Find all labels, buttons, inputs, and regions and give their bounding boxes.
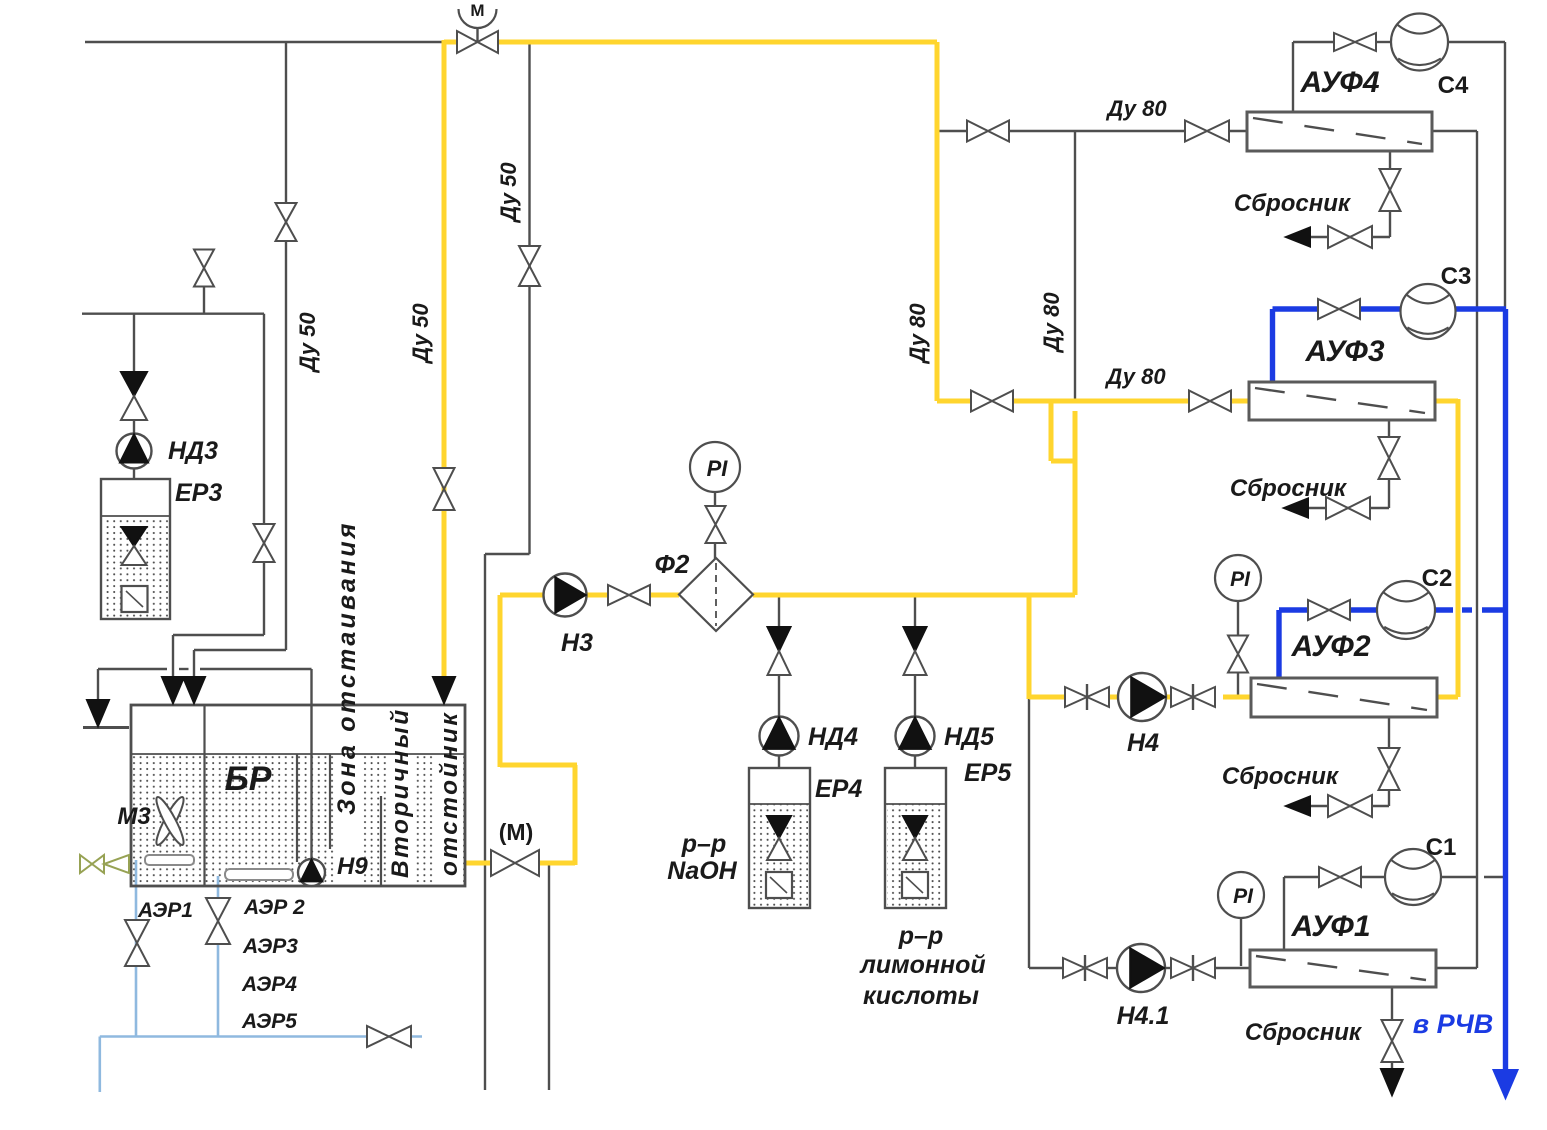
svg-text:Н9: Н9 [337, 853, 368, 880]
pipe blue AUF2 outlet [1276, 610, 1281, 677]
svg-text:Н4: Н4 [1127, 729, 1159, 757]
valve AUF3 feed b [1189, 391, 1231, 412]
pipe air left drop [99, 1037, 102, 1093]
svg-text:Сбросник: Сбросник [1234, 190, 1352, 217]
svg-text:НД4: НД4 [808, 723, 858, 751]
svg-text:С4: С4 [1438, 72, 1469, 99]
wire long drain right [548, 864, 550, 1090]
white strip behind rotated label Vtorichny [388, 755, 415, 885]
wire PI-F2 stem [714, 492, 716, 506]
wire AUF3 drain [1388, 420, 1390, 438]
wire C4 drop to RChV header [1504, 42, 1506, 309]
gauge PI at F2 [690, 442, 740, 492]
reservoir EP4 [749, 768, 810, 908]
svg-text:Ду 80: Ду 80 [1105, 96, 1167, 121]
svg-text:Ду 50: Ду 50 [295, 312, 320, 374]
wire AUF1 right to collector [1436, 967, 1477, 969]
inlet arrow 2 [183, 677, 205, 703]
check valve EP4 inner [767, 816, 791, 860]
pump H4 [1118, 673, 1166, 721]
wire vent stub with valve [203, 287, 205, 314]
svg-text:НД5: НД5 [944, 723, 995, 751]
reservoir EP3 [101, 479, 170, 619]
pump ND5 [896, 717, 935, 756]
svg-text:М3: М3 [117, 803, 151, 830]
flow meter C1 [1385, 849, 1441, 905]
drain arrow AUF2 [1286, 797, 1310, 816]
svg-text:Ф2: Ф2 [655, 549, 690, 579]
green drain valve [80, 855, 129, 873]
valve H3 discharge [608, 585, 650, 605]
svg-text:Ду 80: Ду 80 [905, 303, 930, 365]
pipe yellow AUF3 outlet [1435, 399, 1458, 404]
valve PI-F2 [706, 506, 726, 543]
pipe blue C3 to header [1456, 306, 1506, 311]
svg-text:С1: С1 [1426, 834, 1457, 861]
valve C4 [1334, 33, 1376, 51]
arrow to RChV [1494, 1070, 1518, 1098]
wire AUF4 inlet Du80 [937, 130, 966, 132]
level switch EP4 [766, 872, 792, 898]
sparger 2 [225, 869, 293, 880]
valve PI2 [1228, 636, 1248, 673]
white strip behind rotated label Zona [334, 706, 361, 885]
svg-text:С3: С3 [1441, 263, 1472, 290]
svg-text:Зона отстаивания: Зона отстаивания [333, 520, 361, 815]
svg-text:АЭР3: АЭР3 [242, 935, 298, 958]
svg-text:Вторичный: Вторичный [387, 707, 414, 878]
valve H4 discharge [1171, 684, 1215, 710]
svg-text:в РЧВ: в РЧВ [1413, 1009, 1493, 1039]
wire ND3 suction drop [133, 314, 135, 372]
tank secondary settler wall [380, 796, 382, 886]
svg-text:АЭР1: АЭР1 [137, 899, 193, 922]
check valve ND5 [904, 627, 927, 675]
valve H41 discharge [1171, 955, 1215, 981]
wire AUF4 drain [1389, 151, 1391, 170]
reservoir EP5 [885, 768, 946, 908]
valve AUF1 drain v [1382, 1020, 1403, 1062]
UV unit AUF1 [1250, 950, 1436, 987]
inlet arrow yellow line [433, 677, 455, 703]
wire Du80 vertical gray [1074, 131, 1076, 403]
pipe air AER2 riser [217, 876, 220, 1037]
wire EP5 inner stem [914, 804, 916, 817]
pipe air AER1 riser [135, 860, 138, 1037]
wire H9 suction pipe [310, 669, 312, 858]
inlet arrow 1 [162, 677, 184, 703]
svg-text:PI: PI [1233, 885, 1254, 908]
valve AUF4 feed a [967, 121, 1009, 142]
pipe yellow Du80 drop [935, 42, 940, 401]
drain arrow AUF3 [1284, 499, 1308, 518]
wire left dosing feed header [82, 313, 264, 315]
svg-text:АУФ1: АУФ1 [1290, 910, 1370, 943]
svg-text:PI: PI [1230, 568, 1251, 591]
wire C4 to right header [1448, 41, 1505, 43]
svg-text:НД3: НД3 [168, 437, 218, 465]
svg-text:АУФ2: АУФ2 [1290, 630, 1370, 663]
UV unit AUF3 [1249, 382, 1435, 420]
wire N41 suction line [1029, 967, 1063, 969]
tank wall left of pump [296, 754, 298, 862]
wire PI2 stem [1237, 601, 1239, 641]
valve on x264 [254, 524, 275, 562]
svg-text:АУФ3: АУФ3 [1304, 335, 1384, 368]
pipe yellow top header [444, 40, 457, 45]
flow meter C2 [1377, 581, 1435, 639]
pipe yellow riser jog [1049, 399, 1054, 461]
tank wall right of pump [329, 754, 331, 849]
valve electric top [457, 9, 498, 53]
overflow weir line [83, 726, 129, 729]
tank separator wall [203, 705, 205, 886]
valve AUF2 drain h [1328, 795, 1372, 817]
flow meter C4 [1391, 14, 1448, 71]
valve AUF3 drain h [1326, 497, 1370, 519]
valve on x530 [519, 246, 540, 286]
valve H4 suction [1065, 684, 1109, 710]
gauge PI at AUF1 [1218, 872, 1264, 918]
tank BR outline [131, 705, 465, 886]
pipe yellow zigzag from tank [466, 861, 491, 866]
wire ND5 branch [914, 595, 916, 627]
svg-text:лимонной: лимонной [859, 951, 985, 979]
tank BR dotted water fill [131, 754, 465, 886]
valve on x286 [276, 203, 297, 241]
wire AUF4 outlet top [1292, 42, 1294, 112]
wire N4 N41 suction drop [1028, 697, 1030, 968]
svg-text:(М): (М) [499, 819, 533, 845]
svg-text:ЕР4: ЕР4 [815, 775, 862, 803]
svg-text:М: М [470, 1, 484, 20]
overflow arrow [87, 700, 109, 726]
valve AUF4 drain v [1380, 169, 1401, 211]
pump H9 [298, 859, 325, 886]
svg-text:АУФ4: АУФ4 [1299, 66, 1379, 99]
wire long drain left [484, 554, 486, 1090]
pipe blue C2 to header crossing [1435, 607, 1453, 612]
wire tank feed header y669 [98, 668, 167, 670]
UV unit AUF2 [1251, 678, 1437, 717]
level switch EP5 [902, 872, 928, 898]
svg-text:Ду 80: Ду 80 [1104, 364, 1166, 389]
valve M motorized [491, 850, 539, 876]
valve AER2 [206, 898, 230, 944]
valve on yellow x444 [434, 468, 455, 510]
svg-text:р–р: р–р [681, 830, 726, 858]
flow meter C3 [1401, 284, 1456, 339]
pump H4.1 [1117, 944, 1165, 992]
svg-text:С2: С2 [1422, 565, 1453, 592]
pipe air bottom header [100, 1035, 422, 1038]
filter F2 [679, 558, 753, 631]
pipe blue RChV header [1503, 309, 1508, 1072]
svg-text:Н3: Н3 [561, 629, 593, 657]
mixer M3 [152, 795, 187, 848]
svg-text:кислоты: кислоты [863, 982, 979, 1010]
wire AUF2 drain [1388, 717, 1390, 749]
svg-text:отстойник: отстойник [436, 711, 463, 876]
svg-text:Ду 50: Ду 50 [408, 303, 433, 365]
valve AUF4 drain h [1328, 226, 1372, 248]
valve AUF2 drain v [1379, 748, 1400, 790]
svg-text:р–р: р–р [898, 922, 943, 950]
tank water level line [131, 753, 465, 755]
wire PI1 stem [1240, 918, 1242, 966]
svg-text:АЭР5: АЭР5 [241, 1010, 297, 1033]
pump ND4 [760, 717, 799, 756]
svg-text:АЭР4: АЭР4 [241, 973, 297, 996]
pump ND3 [117, 434, 152, 469]
check valve ND3 [121, 372, 147, 420]
svg-text:Н4.1: Н4.1 [1117, 1002, 1170, 1030]
gauge PI at AUF2 [1215, 555, 1261, 601]
valve AUF3 drain v [1379, 437, 1400, 479]
wire EP3 inner stem [133, 516, 135, 528]
valve C1 [1319, 867, 1361, 887]
valve air header [367, 1026, 411, 1047]
valve AUF3 feed a [971, 391, 1013, 412]
wire AUF1 outlet top [1283, 877, 1285, 950]
svg-text:Ду 50: Ду 50 [496, 162, 521, 224]
pipe yellow AUF3 feed [937, 399, 971, 404]
wire Du50 drop at x530 [528, 43, 530, 554]
valve AUF4 feed b [1185, 121, 1229, 142]
wire drop pipe from dosing header [263, 314, 265, 635]
svg-text:ЕР5: ЕР5 [964, 759, 1012, 787]
pipe blue AUF3 outlet [1270, 309, 1275, 382]
wire drop pipe Du50 at x286 [285, 42, 287, 650]
check valve EP5 inner [903, 816, 927, 860]
wire AUF1 drain [1391, 987, 1393, 1021]
sparger 1 [145, 855, 194, 865]
svg-text:ЕР3: ЕР3 [175, 479, 222, 507]
drain arrow AUF1 [1381, 1069, 1403, 1095]
svg-text:Сбросник: Сбросник [1245, 1019, 1363, 1046]
check valve EP3 inner [122, 527, 147, 565]
wire EP4 inner stem [778, 804, 780, 817]
wire C1 outlet crossing [1441, 876, 1477, 878]
wire left overflow drop [97, 669, 99, 703]
valve C3 [1318, 299, 1360, 319]
check valve ND4 [768, 627, 791, 675]
wire ND4 branch [778, 595, 780, 627]
svg-text:NaOH: NaOH [667, 857, 737, 885]
white strip behind rotated label otstoynik [436, 755, 463, 885]
valve AER1 [125, 920, 149, 966]
svg-text:Ду 80: Ду 80 [1039, 292, 1064, 354]
wire ND3 to EP3 [133, 420, 135, 434]
svg-text:Сбросник: Сбросник [1230, 475, 1348, 502]
wire AUF4 right to collector [1432, 130, 1477, 132]
pipe yellow main process line [500, 593, 544, 598]
level switch EP3 [122, 586, 148, 612]
UV unit AUF4 [1247, 112, 1432, 151]
pump H3 [544, 574, 587, 617]
wire top feed header [85, 41, 444, 43]
pipe yellow Du50 drop to tank [442, 40, 447, 678]
drain arrow AUF4 [1286, 228, 1310, 247]
svg-text:БР: БР [225, 760, 272, 798]
valve vent stub [194, 250, 214, 287]
svg-text:Сбросник: Сбросник [1222, 763, 1340, 790]
pipe yellow AUF2 branch [1027, 595, 1032, 699]
svg-text:АЭР 2: АЭР 2 [243, 896, 305, 919]
valve H41 suction [1063, 955, 1107, 981]
svg-text:PI: PI [707, 456, 729, 481]
wire right collector vertical [1476, 131, 1478, 968]
valve C2 [1308, 600, 1350, 620]
